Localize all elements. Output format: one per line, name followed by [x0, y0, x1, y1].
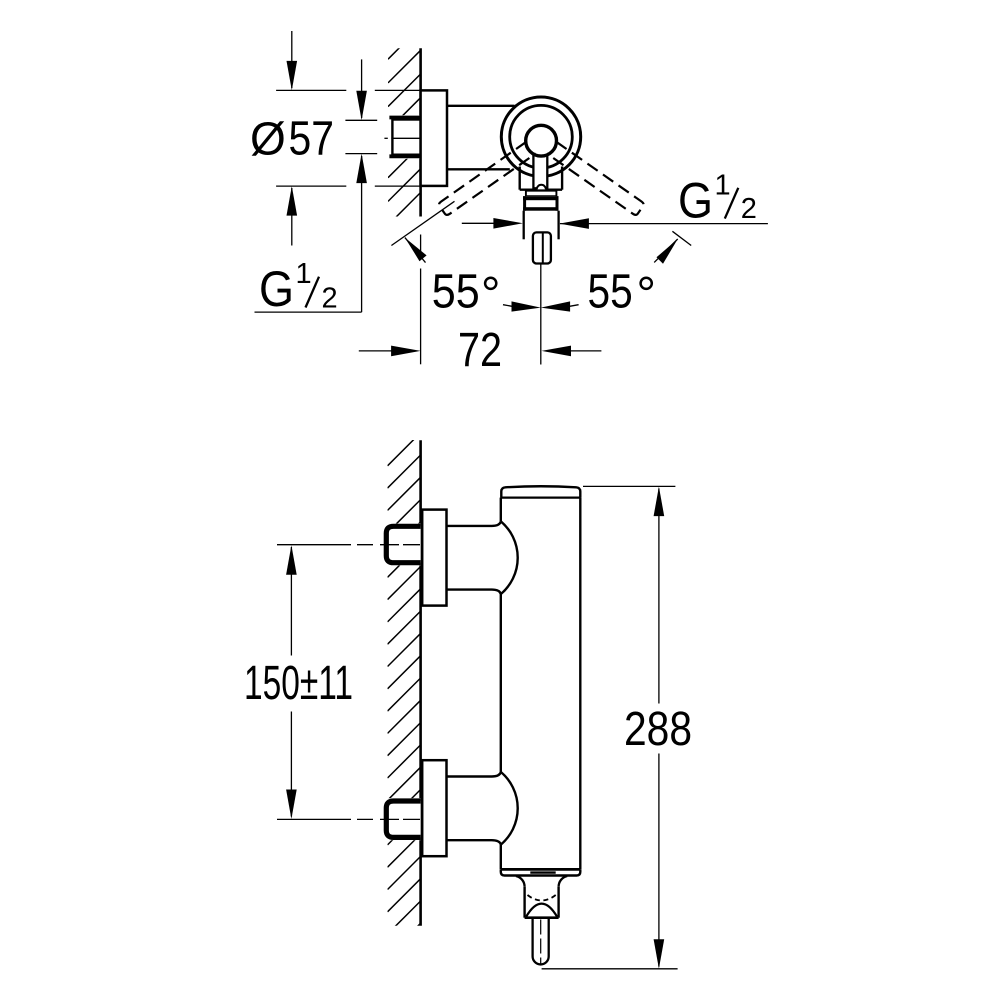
right arm axis tick	[672, 231, 691, 245]
dim 72 wall extension	[420, 235, 422, 257]
dim Ø57 line lower	[291, 188, 293, 246]
dim nut extension top	[345, 119, 377, 121]
union nut (top view)	[392, 120, 420, 155]
upper escutcheon	[422, 510, 446, 606]
outlet dome	[526, 904, 557, 917]
dim Ø57 extension top	[276, 89, 346, 91]
wall (side view)	[419, 440, 422, 926]
lever tip arc	[537, 185, 546, 190]
svg-text:1: 1	[715, 169, 731, 201]
svg-text:57: 57	[289, 112, 335, 165]
outlet tube (top view)	[523, 211, 525, 240]
outlet neck (side view)	[523, 887, 525, 918]
upper nut centre line / dim ext	[277, 544, 420, 546]
svg-text:1: 1	[296, 258, 312, 290]
outlet ring	[526, 191, 557, 197]
svg-text:55: 55	[432, 266, 480, 319]
dim nut extension bottom	[345, 153, 377, 155]
hidden aerator arc	[528, 895, 556, 901]
lower nut centre line / dim ext	[277, 818, 420, 820]
dim nut line lower / G half leader	[361, 156, 363, 312]
hose stem	[533, 232, 551, 263]
angle vertex arrow right	[541, 301, 570, 311]
wall hatching (side view)	[388, 433, 421, 957]
svg-text:2: 2	[741, 193, 757, 225]
outlet shoulder fillets	[516, 876, 525, 887]
handle pivot circle	[526, 125, 557, 156]
dim G half left arrow	[462, 222, 494, 224]
dim nut line upper	[361, 59, 363, 118]
hatch mask for union nut (top view)	[386, 115, 421, 159]
swivel arm right (dashed)	[547, 142, 644, 215]
handle lever bar	[533, 152, 547, 188]
body left edge	[500, 498, 502, 522]
svg-text:G: G	[259, 261, 294, 317]
lower escutcheon	[422, 760, 446, 856]
svg-text:G: G	[678, 173, 713, 229]
left arm axis extension	[391, 201, 454, 245]
body bottom edge	[501, 869, 581, 875]
lower dome	[501, 772, 518, 845]
hatch mask upper nut	[384, 524, 421, 566]
svg-text:Ø: Ø	[250, 113, 286, 165]
valve body inner circle	[510, 105, 573, 168]
upper union nut	[386, 526, 420, 562]
dim 288 ext top	[583, 485, 675, 487]
body right edge	[579, 498, 581, 870]
dim 72 line right	[570, 350, 601, 352]
body top cap	[501, 486, 580, 497]
dim G half right line	[560, 223, 768, 225]
wall hatching (top view)	[388, 27, 421, 249]
svg-text:72: 72	[458, 324, 502, 377]
angle arrow right	[657, 239, 678, 264]
lower stub	[447, 772, 501, 777]
svg-text:150±11: 150±11	[244, 657, 353, 710]
body neck (top view)	[519, 167, 521, 190]
nut centre line (top view)	[384, 137, 387, 139]
nipple centre line	[540, 920, 542, 964]
dim 288 ext bottom	[542, 968, 678, 970]
escutcheon (top view)	[421, 90, 447, 185]
angle vertex arrow left	[512, 301, 541, 311]
svg-text:288: 288	[624, 703, 692, 756]
dim 72 line left	[359, 350, 392, 352]
dim Ø57 extension bottom	[276, 185, 346, 187]
angle arrow left	[405, 238, 427, 262]
outlet collar	[523, 196, 558, 211]
dim 288 line	[658, 489, 660, 704]
upper stub	[447, 521, 501, 526]
lower union nut	[386, 801, 420, 837]
upper dome	[501, 521, 518, 594]
swivel arm left (dashed)	[439, 142, 536, 215]
dim Ø57 line upper	[291, 31, 293, 88]
wall (top view)	[419, 48, 422, 216]
hatch mask lower nut	[384, 798, 421, 840]
svg-text:55: 55	[588, 266, 633, 319]
hose nipple	[533, 918, 549, 965]
body bottom seam	[501, 868, 581, 871]
connecting tube outline (top view)	[447, 105, 515, 107]
valve body outer circle	[501, 97, 580, 176]
outlet centre line	[540, 264, 542, 365]
body bottom slot	[530, 871, 555, 873]
outlet neck base	[525, 916, 559, 919]
svg-text:2: 2	[322, 282, 338, 314]
dim 150 line	[290, 547, 292, 656]
